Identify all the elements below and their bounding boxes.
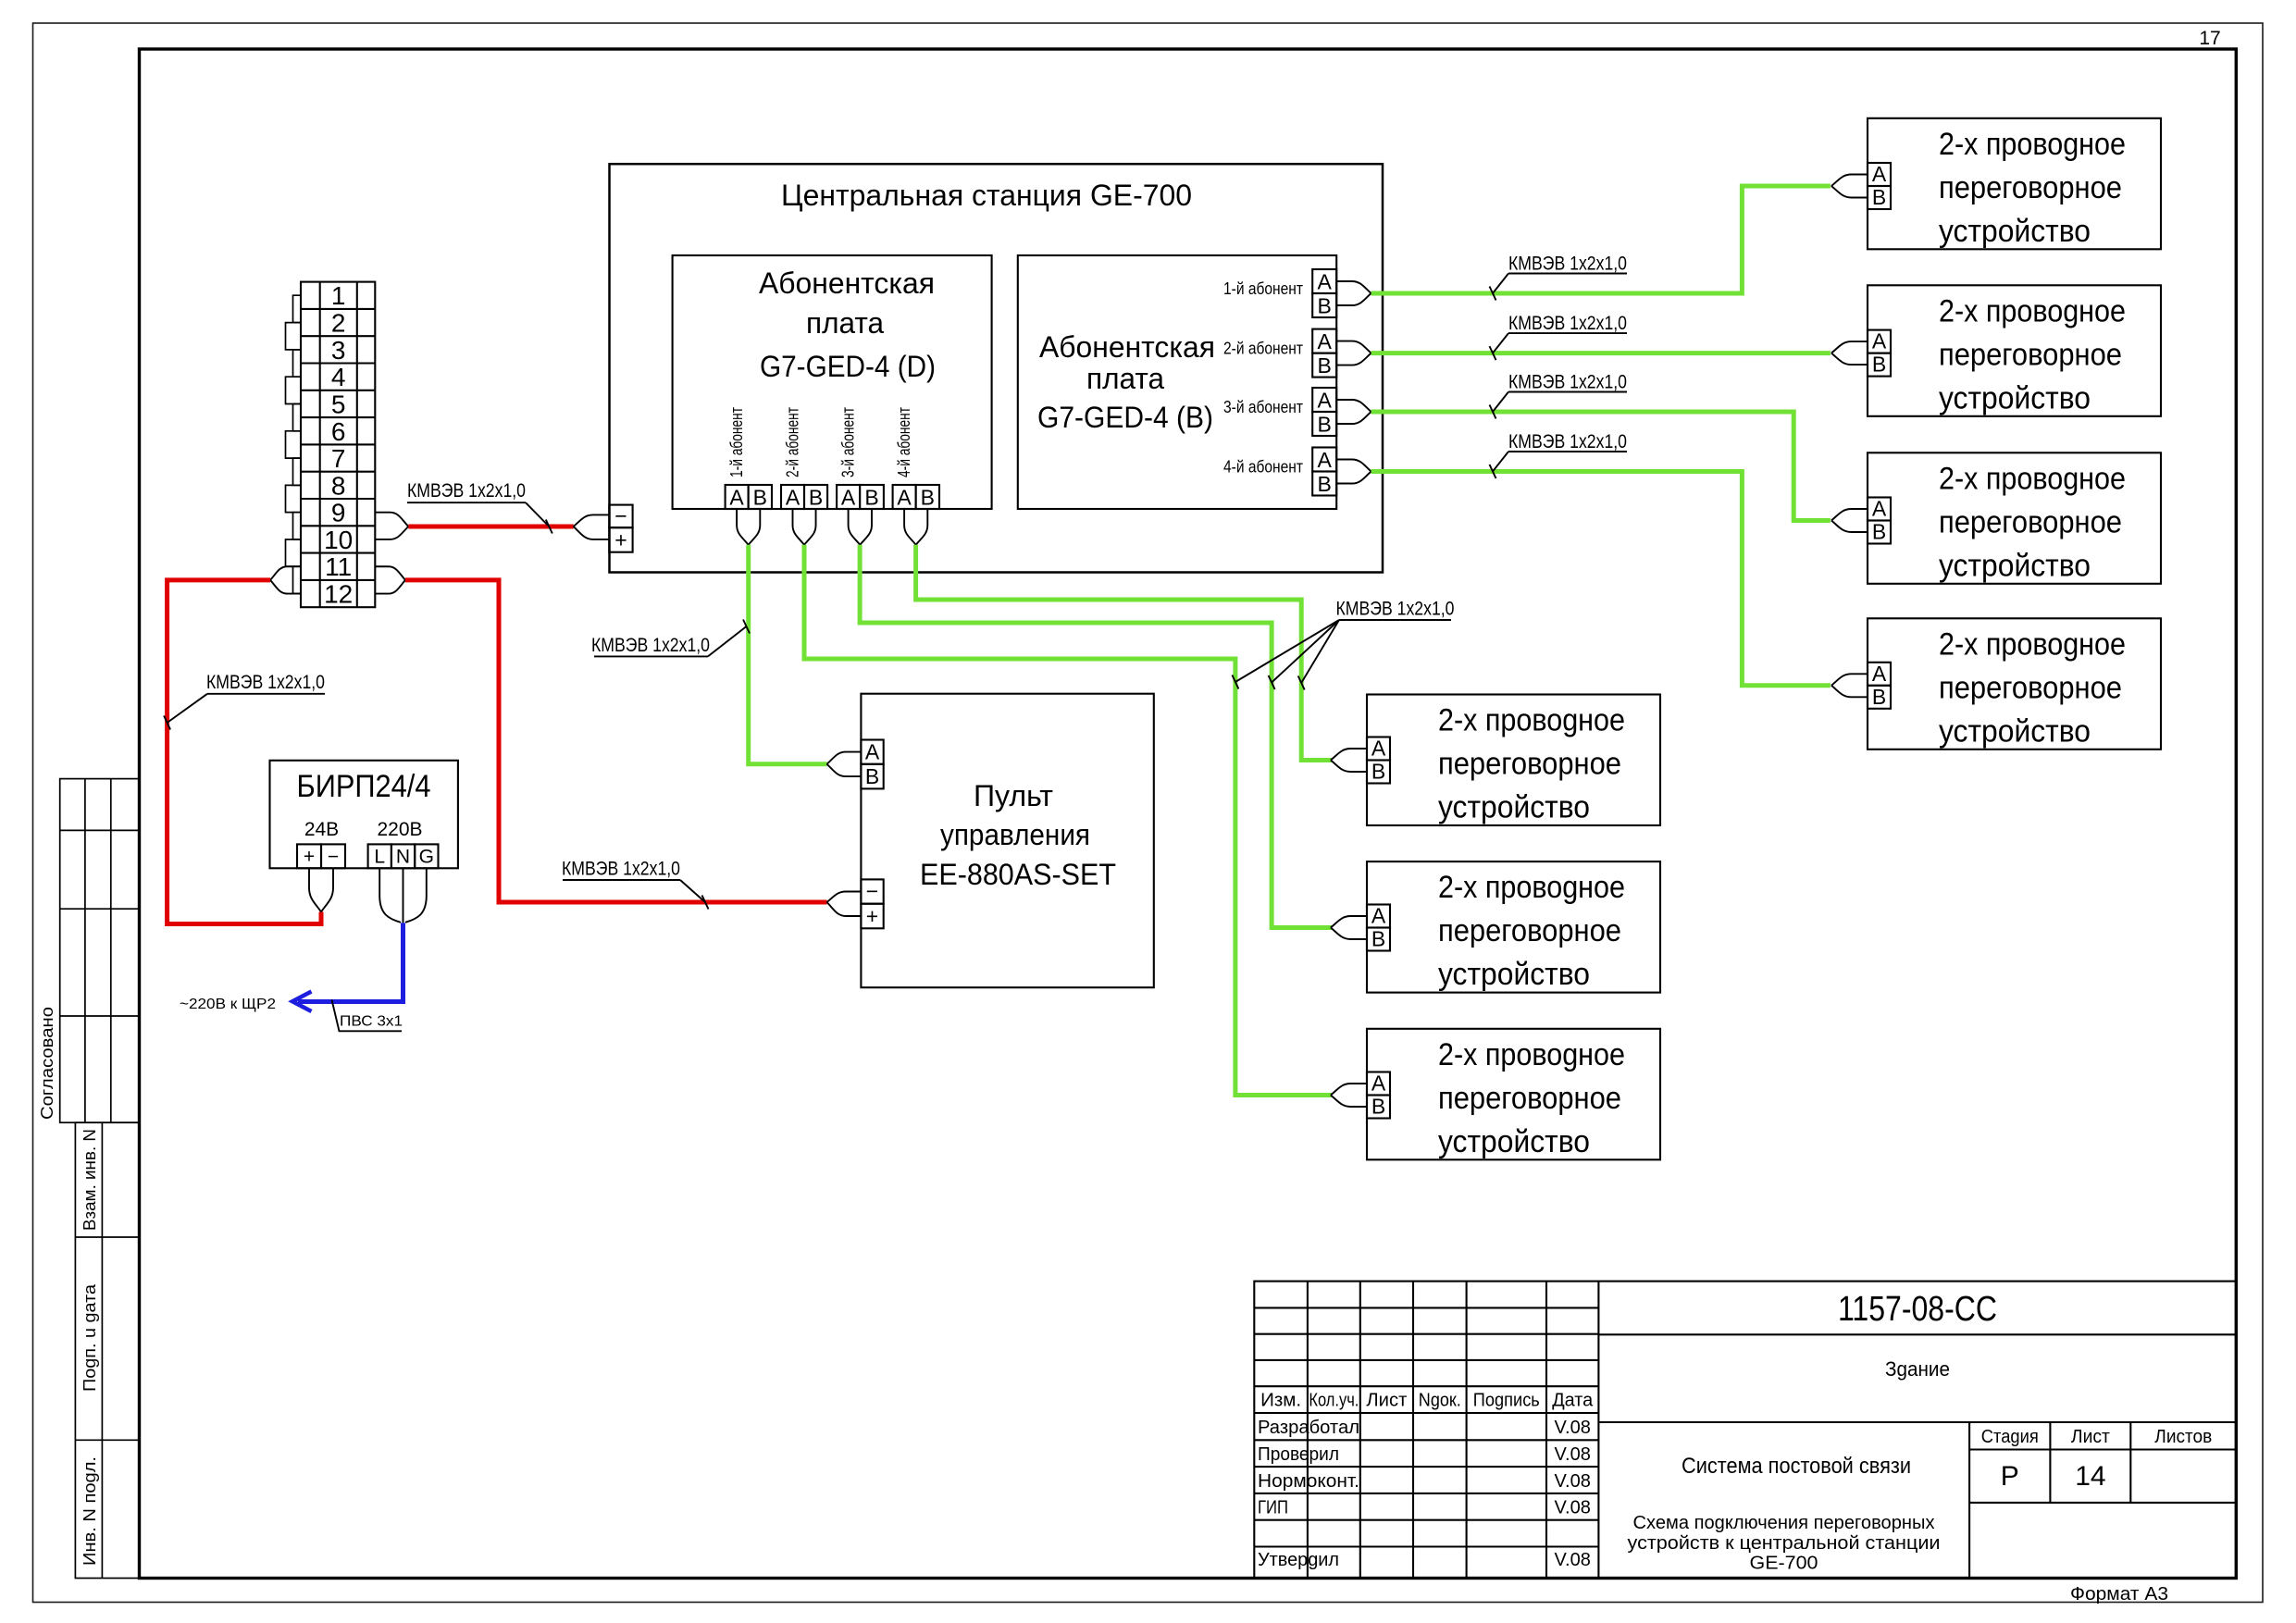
terminals A/B pair 1 (board B) — [1312, 269, 1336, 317]
terminals A/B (R2) — [1868, 330, 1891, 377]
svg-text:Инв. N поgл.: Инв. N поgл. — [81, 1456, 99, 1566]
jumper terminals 3-4 — [293, 350, 302, 377]
svg-text:A: A — [1872, 162, 1887, 186]
junction terminals 11/12 (left) — [270, 566, 301, 580]
svg-text:Стаgия: Стаgия — [1981, 1427, 2039, 1447]
svg-text:B: B — [1318, 353, 1332, 378]
svg-text:1-й абонент: 1-й абонент — [1223, 279, 1303, 298]
svg-text:2-х провоgное: 2-х провоgное — [1438, 870, 1625, 905]
svg-text:−: − — [614, 504, 627, 528]
junction A/B (M1) — [1331, 749, 1367, 761]
svg-text:устройств к центральной ст: устройств к центральной станции — [1628, 1533, 1941, 1554]
terminals A/B pair 4 (board B) — [1312, 448, 1336, 496]
terminals A/B pair 2 (board D) — [781, 485, 827, 509]
jumper terminals 9-10 — [293, 513, 302, 539]
wire green: pair1(D) to пульт A/B — [749, 545, 827, 764]
junction L N G (БИРП) — [379, 868, 401, 923]
svg-text:A: A — [1872, 662, 1887, 686]
terminal block (12 terminals) — [301, 282, 375, 608]
svg-text:Р: Р — [2001, 1461, 2019, 1492]
terminals A/B pair 3 (board D) — [837, 485, 884, 509]
svg-text:14: 14 — [2075, 1461, 2105, 1492]
svg-text:1157-08-СС: 1157-08-СС — [1838, 1290, 1997, 1329]
central station GE-700 — [610, 164, 1384, 572]
wire green: pair3(D) to device M2 — [860, 545, 1332, 928]
jumper terminals 6-7 — [286, 431, 302, 458]
terminals A/B (M3) — [1367, 1072, 1390, 1119]
cable label КМВЭВ 1х2х1,0 (right wire 3) — [1490, 372, 1628, 419]
svg-text:B: B — [1872, 353, 1886, 377]
svg-text:~220В к ЩР2: ~220В к ЩР2 — [180, 997, 276, 1012]
terminals L N G (БИРП) — [368, 844, 439, 868]
svg-text:10: 10 — [324, 526, 353, 554]
left margin stamp table (upper) — [60, 779, 140, 1123]
svg-text:Согласовано: Согласовано — [38, 1007, 56, 1120]
svg-text:7: 7 — [331, 444, 346, 473]
svg-text:+: + — [614, 528, 627, 552]
svg-text:8: 8 — [331, 471, 346, 500]
svg-text:B: B — [1371, 927, 1385, 951]
jumper terminals 10-11 — [286, 539, 302, 566]
svg-text:Разработал: Разработал — [1258, 1418, 1359, 1438]
left margin stamp table (lower) — [75, 1122, 140, 1578]
svg-text:Абонентская: Абонентская — [759, 266, 935, 300]
svg-text:2-х провоgное: 2-х провоgное — [1939, 293, 2126, 328]
svg-text:4-й абонент: 4-й абонент — [1223, 458, 1303, 477]
terminals A/B (M1) — [1367, 737, 1390, 784]
svg-text:управления: управления — [940, 818, 1090, 851]
jumper terminals 4-5 — [286, 377, 302, 403]
svg-text:B: B — [1872, 185, 1886, 209]
svg-text:Лист: Лист — [2071, 1427, 2110, 1447]
jumper terminals 11-12 — [293, 566, 302, 593]
jumper terminals 8-9 — [286, 485, 302, 512]
svg-text:B: B — [1318, 472, 1332, 496]
svg-text:переговорное: переговорное — [1438, 747, 1621, 782]
terminals -/+ (пульт) — [861, 879, 883, 928]
svg-text:A: A — [897, 486, 912, 510]
intercom device R2 — [1868, 285, 2161, 416]
svg-text:ГИП: ГИП — [1258, 1498, 1288, 1518]
svg-text:устройство: устройство — [1438, 790, 1590, 825]
svg-text:КМВЭВ 1х2х1,0: КМВЭВ 1х2х1,0 — [1508, 254, 1627, 275]
subscriber board G7-GED-4 (B) — [1018, 255, 1336, 509]
wire green: pair3(B) to device R3 — [1371, 412, 1831, 521]
svg-text:устройство: устройство — [1438, 957, 1590, 992]
svg-text:+: + — [304, 847, 315, 868]
svg-text:переговорное: переговорное — [1939, 504, 2122, 539]
junction terminals 9/10 (right) — [375, 513, 408, 527]
wire green: pair2(D) to device M3 — [804, 545, 1333, 1096]
svg-text:A: A — [1371, 737, 1386, 761]
svg-text:A: A — [1872, 329, 1887, 353]
control panel EE-880AS-SET — [861, 694, 1153, 987]
subscriber board G7-GED-4 (D) — [673, 255, 992, 509]
svg-text:КМВЭВ 1х2х1,0: КМВЭВ 1х2х1,0 — [1508, 431, 1627, 452]
cable label КМВЭВ 1х2х1,0 (three greens) — [1232, 599, 1454, 690]
svg-text:9: 9 — [331, 499, 346, 527]
terminals A/B pair 2 (board B) — [1312, 329, 1336, 378]
junction A/B (M3) — [1331, 1084, 1367, 1096]
svg-text:G7-GED-4 (D): G7-GED-4 (D) — [760, 350, 936, 383]
junction pair 2 (board B) — [1336, 341, 1371, 353]
wire blue: 220В to ЩР2 — [298, 923, 403, 1001]
junction A/B (R2) — [1831, 341, 1868, 353]
svg-text:1: 1 — [331, 281, 346, 310]
svg-text:A: A — [786, 486, 800, 510]
terminals A/B pair 1 (board D) — [726, 485, 772, 509]
svg-text:24В: 24В — [304, 819, 339, 840]
svg-text:2-х провоgное: 2-х провоgное — [1438, 703, 1625, 738]
intercom device R4 — [1868, 618, 2161, 750]
intercom device M2 — [1367, 861, 1660, 993]
wire green: pair4(D) to device M1 — [916, 545, 1333, 761]
svg-text:Утверgил: Утверgил — [1258, 1550, 1339, 1570]
svg-text:КМВЭВ 1х2х1,0: КМВЭВ 1х2х1,0 — [1336, 599, 1455, 620]
junction pair 3 (board D) — [849, 509, 861, 545]
svg-text:Кол.уч.: Кол.уч. — [1309, 1391, 1359, 1411]
svg-text:B: B — [864, 486, 878, 510]
svg-text:V.08: V.08 — [1555, 1498, 1591, 1518]
svg-text:N: N — [396, 847, 410, 868]
terminals A/B (R3) — [1868, 498, 1891, 544]
svg-text:B: B — [753, 486, 767, 510]
svg-text:Листов: Листов — [2154, 1427, 2212, 1447]
cable label КМВЭВ 1х2х1,0 (9/10) — [407, 480, 552, 534]
svg-text:устройство: устройство — [1939, 380, 2091, 415]
cable label КМВЭВ 1х2х1,0 (right wire 4) — [1490, 431, 1628, 478]
svg-text:2-х провоgное: 2-х провоgное — [1939, 127, 2126, 162]
svg-text:Абонентская: Абонентская — [1039, 330, 1215, 364]
svg-text:Взам. инв. N: Взам. инв. N — [81, 1129, 99, 1231]
svg-text:A: A — [729, 486, 744, 510]
jumper terminals 1-2 — [293, 295, 302, 322]
svg-text:3-й абонент: 3-й абонент — [839, 407, 858, 477]
terminals A/B (R4) — [1868, 663, 1891, 709]
svg-text:БИРП24/4: БИРП24/4 — [297, 769, 431, 804]
svg-text:Лист: Лист — [1366, 1391, 1407, 1411]
junction pair 1 (board B) — [1336, 281, 1371, 293]
terminals A/B (R1) — [1868, 163, 1891, 209]
junction A/B (M2) — [1331, 916, 1367, 928]
svg-text:Пульт: Пульт — [974, 779, 1053, 812]
svg-text:2-х провоgное: 2-х провоgное — [1438, 1037, 1625, 1072]
svg-text:B: B — [865, 764, 879, 788]
junction A/B (R1) — [1831, 175, 1868, 187]
svg-text:G7-GED-4 (B): G7-GED-4 (B) — [1037, 401, 1213, 434]
svg-text:V.08: V.08 — [1555, 1550, 1591, 1570]
junction pair 1 (board D) — [737, 509, 749, 545]
svg-text:B: B — [1872, 685, 1886, 709]
svg-text:Изм.: Изм. — [1260, 1391, 1301, 1411]
terminals A/B (M2) — [1367, 905, 1390, 951]
svg-text:КМВЭВ 1х2х1,0: КМВЭВ 1х2х1,0 — [591, 635, 710, 656]
svg-text:V.08: V.08 — [1555, 1444, 1591, 1465]
junction A/B (пульт) — [827, 752, 862, 764]
terminals A/B (пульт) — [861, 740, 883, 789]
svg-text:2-й абонент: 2-й абонент — [784, 407, 802, 477]
svg-text:A: A — [1371, 904, 1386, 928]
terminals A/B pair 3 (board B) — [1312, 388, 1336, 436]
svg-text:17: 17 — [2199, 28, 2220, 49]
svg-text:Система постовой связи: Система постовой связи — [1682, 1454, 1911, 1479]
svg-text:4-й абонент: 4-й абонент — [895, 407, 913, 477]
svg-text:A: A — [1318, 270, 1333, 294]
svg-text:2-й абонент: 2-й абонент — [1223, 340, 1303, 358]
junction -/+ (пульт) — [827, 892, 862, 903]
svg-text:КМВЭВ 1х2х1,0: КМВЭВ 1х2х1,0 — [562, 859, 680, 880]
svg-text:12: 12 — [324, 580, 353, 609]
svg-text:переговорное: переговорное — [1939, 170, 2122, 205]
wire red: terminals 11/12 to БИРП24/4 24В — [168, 580, 321, 924]
svg-text:2-х провоgное: 2-х провоgное — [1939, 626, 2126, 662]
svg-text:2: 2 — [331, 309, 346, 338]
wire green: pair2(B) to device R2 — [1371, 351, 1831, 355]
wire green: pair4(B) to device R4 — [1371, 472, 1831, 686]
svg-text:A: A — [841, 486, 856, 510]
svg-text:Проверил: Проверил — [1258, 1444, 1339, 1465]
svg-text:A: A — [865, 740, 880, 764]
svg-text:устройство: устройство — [1438, 1124, 1590, 1159]
intercom device R1 — [1868, 118, 2161, 249]
cable label КМВЭВ 1х2х1,0 (to пульт) — [562, 859, 709, 910]
svg-text:11: 11 — [325, 552, 352, 581]
terminals -/+ (GE-700) — [609, 505, 632, 552]
junction terminals 11/12 (right) — [375, 566, 405, 580]
terminals A/B pair 4 (board D) — [893, 485, 939, 509]
svg-text:A: A — [1318, 448, 1333, 472]
svg-text:GE-700: GE-700 — [1750, 1554, 1818, 1574]
svg-text:переговорное: переговорное — [1438, 1081, 1621, 1116]
junction A/B (R4) — [1831, 674, 1868, 686]
svg-text:устройство: устройство — [1939, 713, 2091, 749]
svg-text:220В: 220В — [377, 819, 422, 840]
jumper terminals 2-3 — [286, 323, 302, 350]
svg-text:Формат А3: Формат А3 — [2070, 1584, 2168, 1604]
svg-text:−: − — [328, 847, 339, 868]
jumper terminals 5-6 — [293, 404, 302, 431]
svg-text:B: B — [809, 486, 823, 510]
svg-text:Центральная станция GE-700: Центральная станция GE-700 — [781, 179, 1192, 212]
wire red: terminals 11/12 to пульт -/+ — [405, 580, 827, 902]
junction pair 4 (board B) — [1336, 460, 1371, 472]
svg-text:переговорное: переговорное — [1438, 913, 1621, 948]
svg-text:Поgп. u gата: Поgп. u gата — [81, 1283, 99, 1392]
wire green: pair1(B) to device R1 — [1371, 186, 1831, 293]
terminals +/- (БИРП) — [297, 844, 345, 868]
svg-text:A: A — [1872, 497, 1887, 521]
svg-text:V.08: V.08 — [1555, 1471, 1591, 1492]
wire red: terminals 9/10 to GE-700 -/+ — [408, 525, 573, 529]
svg-text:КМВЭВ 1х2х1,0: КМВЭВ 1х2х1,0 — [407, 480, 526, 502]
svg-text:устройство: устройство — [1939, 548, 2091, 583]
svg-text:ЕЕ-880AS-SET: ЕЕ-880AS-SET — [920, 858, 1116, 891]
intercom device M1 — [1367, 695, 1660, 826]
svg-text:КМВЭВ 1х2х1,0: КМВЭВ 1х2х1,0 — [1508, 313, 1627, 334]
svg-text:Поgпись: Поgпись — [1473, 1391, 1540, 1411]
svg-text:Схема поgключения переговорн: Схема поgключения переговорных — [1633, 1513, 1935, 1533]
arrow to ЩР2 — [292, 992, 312, 1012]
title block — [1254, 1282, 2236, 1579]
intercom device R3 — [1868, 452, 2161, 584]
cable label КМВЭВ 1х2х1,0 (right wire 1) — [1490, 254, 1628, 301]
svg-text:B: B — [921, 486, 935, 510]
svg-text:V.08: V.08 — [1555, 1418, 1591, 1438]
cable label КМВЭВ 1х2х1,0 (green G1) — [591, 620, 750, 657]
jumper terminals 7-8 — [293, 458, 302, 485]
cable label КМВЭВ 1х2х1,0 (right wire 2) — [1490, 313, 1628, 360]
svg-text:5: 5 — [331, 390, 346, 419]
svg-text:B: B — [1371, 1095, 1385, 1119]
junction pair 3 (board B) — [1336, 400, 1371, 412]
svg-text:Дата: Дата — [1552, 1391, 1594, 1411]
svg-text:Зgание: Зgание — [1885, 1357, 1950, 1381]
svg-text:Нормоконт.: Нормоконт. — [1258, 1471, 1359, 1492]
svg-text:−: − — [866, 879, 878, 903]
svg-text:плата: плата — [1086, 362, 1164, 395]
svg-text:6: 6 — [331, 417, 346, 446]
svg-text:B: B — [1872, 520, 1886, 544]
svg-text:A: A — [1318, 329, 1333, 353]
svg-text:переговорное: переговорное — [1939, 337, 2122, 372]
svg-text:КМВЭВ 1х2х1,0: КМВЭВ 1х2х1,0 — [1508, 372, 1627, 393]
svg-text:КМВЭВ 1х2х1,0: КМВЭВ 1х2х1,0 — [206, 672, 325, 693]
svg-text:3-й абонент: 3-й абонент — [1223, 398, 1303, 416]
intercom device M3 — [1367, 1029, 1660, 1160]
cable label ПВС 3х1 — [332, 1000, 403, 1032]
svg-text:4: 4 — [331, 363, 346, 391]
svg-text:A: A — [1318, 389, 1333, 413]
svg-text:1-й абонент: 1-й абонент — [727, 407, 746, 477]
svg-text:ПВС 3х1: ПВС 3х1 — [340, 1014, 403, 1030]
svg-text:Ngок.: Ngок. — [1419, 1391, 1461, 1411]
svg-text:B: B — [1318, 413, 1332, 437]
junction pair 4 (board D) — [904, 509, 916, 545]
svg-text:L: L — [374, 847, 385, 868]
svg-text:2-х провоgное: 2-х провоgное — [1939, 461, 2126, 496]
power supply БИРП24/4 — [270, 761, 458, 869]
svg-text:устройство: устройство — [1939, 214, 2091, 249]
svg-text:+: + — [866, 904, 878, 928]
svg-text:A: A — [1371, 1072, 1386, 1096]
junction -/+ (GE-700) — [574, 514, 610, 527]
junction pair 2 (board D) — [793, 509, 805, 545]
svg-text:3: 3 — [331, 336, 346, 365]
svg-text:G: G — [419, 847, 434, 868]
svg-text:плата: плата — [806, 306, 884, 340]
junction A/B (R3) — [1831, 509, 1868, 521]
cable label КМВЭВ 1х2х1,0 (11/12 left) — [164, 672, 325, 730]
junction +/- (БИРП) — [309, 868, 321, 911]
svg-text:переговорное: переговорное — [1939, 670, 2122, 705]
svg-text:B: B — [1318, 294, 1332, 318]
svg-text:B: B — [1371, 760, 1385, 784]
